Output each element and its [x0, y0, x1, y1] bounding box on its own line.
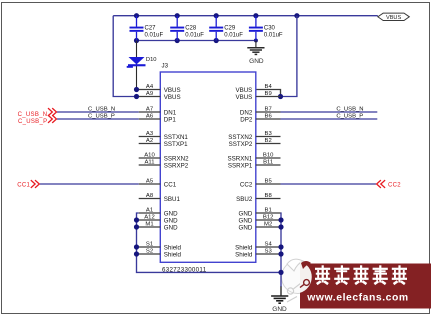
svg-text:D10: D10 [146, 57, 157, 63]
node S2 junction [134, 251, 139, 256]
svg-text:GND: GND [164, 217, 178, 224]
pin A2 SSTXP1 [139, 138, 188, 148]
wire right GND group (B1/B12/M2/S4/S3) [280, 213, 283, 287]
svg-text:SBU2: SBU2 [236, 196, 253, 203]
svg-text:C29: C29 [224, 26, 236, 32]
svg-text:GND: GND [239, 217, 253, 224]
decorative watermark hanzi [315, 265, 407, 285]
ground GND (shield) [271, 287, 288, 314]
pin A6 DP1 [139, 113, 177, 123]
svg-text:B1: B1 [265, 207, 272, 213]
pin A3 SSTXN1 [139, 131, 189, 141]
svg-text:0.01uF: 0.01uF [185, 33, 204, 39]
svg-text:A10: A10 [144, 152, 155, 158]
pin B1 GND [239, 207, 281, 217]
svg-text:B11: B11 [263, 159, 273, 165]
svg-text:GND: GND [239, 210, 253, 217]
svg-text:VBUS: VBUS [164, 87, 181, 94]
svg-text:C27: C27 [145, 26, 157, 32]
svg-text:www.elecfans.com: www.elecfans.com [306, 293, 408, 304]
wire pin B5 to CC2 [281, 183, 377, 185]
node S1 junction [134, 244, 139, 249]
svg-text:A3: A3 [146, 131, 154, 137]
ground GND (capacitor rail) [247, 41, 264, 66]
diode D10 (TVS) [127, 41, 157, 90]
pin A7 DN1 [139, 106, 177, 116]
wire left GND group (A1/A12/M1/S1/S2) [137, 213, 282, 272]
svg-text:SSRXP1: SSRXP1 [228, 162, 253, 169]
pin B2 SSTXP2 [229, 138, 281, 148]
svg-text:SSRXN1: SSRXN1 [228, 155, 253, 162]
pin A5 CC1 [139, 178, 177, 188]
pin B4 VBUS [235, 84, 272, 94]
pin S4 Shield [235, 241, 280, 251]
wire pin B6 to C_USB_P [281, 118, 378, 120]
svg-text:SSTXN1: SSTXN1 [164, 134, 189, 141]
svg-text:SSTXP2: SSTXP2 [229, 141, 253, 148]
pin M2 GND [239, 221, 281, 231]
svg-text:SSTXP1: SSTXP1 [164, 141, 188, 148]
svg-text:A7: A7 [146, 106, 153, 112]
svg-text:C30: C30 [264, 26, 276, 32]
svg-text:A5: A5 [146, 178, 154, 184]
svg-text:B8: B8 [265, 193, 273, 199]
svg-text:B5: B5 [265, 178, 273, 184]
pin A10 SSRXN2 [139, 152, 189, 162]
capacitor C29 0.01uF [209, 16, 243, 41]
svg-text:0.01uF: 0.01uF [145, 33, 164, 39]
pin A12 GND [139, 214, 178, 224]
svg-text:C_USB_N: C_USB_N [336, 107, 363, 113]
pin A1 GND [139, 207, 178, 217]
junction dots on VBUS rail [134, 13, 139, 18]
svg-text:A12: A12 [144, 214, 154, 220]
svg-text:DN1: DN1 [164, 109, 177, 116]
svg-text:CC2: CC2 [240, 181, 253, 188]
pin B9 VBUS [235, 91, 280, 101]
pin B7 DN2 [240, 106, 281, 116]
pin M1 GND [139, 221, 178, 231]
svg-text:B2: B2 [265, 138, 272, 144]
pin A8 SBU1 [139, 193, 181, 203]
svg-text:A8: A8 [146, 193, 154, 199]
pin B6 DP2 [240, 113, 280, 123]
svg-text:VBUS: VBUS [164, 94, 181, 101]
pin S2 Shield [139, 248, 182, 258]
svg-text:SSRXN2: SSRXN2 [164, 155, 189, 162]
svg-text:VBUS: VBUS [386, 15, 402, 21]
connector J3 body [160, 72, 256, 262]
svg-text:A9: A9 [146, 91, 153, 97]
svg-text:A4: A4 [146, 84, 154, 90]
wire C_USB_P to pin A6 [57, 118, 139, 120]
pin S1 Shield [139, 241, 182, 251]
svg-text:Shield: Shield [235, 251, 253, 258]
svg-text:A2: A2 [146, 138, 153, 144]
wire B4 to B9 join [256, 90, 281, 97]
svg-text:B3: B3 [265, 131, 273, 137]
svg-text:M2: M2 [264, 221, 272, 227]
svg-text:S3: S3 [265, 248, 273, 254]
svg-text:A6: A6 [146, 113, 154, 119]
svg-text:B4: B4 [265, 84, 273, 90]
capacitor C27 0.01uF [130, 16, 164, 41]
svg-text:0.01uF: 0.01uF [224, 33, 243, 39]
svg-text:A11: A11 [144, 159, 154, 165]
port CC2 (right edge) [377, 180, 386, 188]
pin B5 CC2 [240, 178, 281, 188]
pin B10 SSRXN1 [228, 152, 281, 162]
wire CC1 to pin A5 [40, 183, 139, 185]
wire pin B7 to C_USB_N [281, 111, 378, 113]
svg-text:S1: S1 [146, 241, 153, 247]
node shield/GND junction [278, 270, 283, 275]
pin S3 Shield [235, 248, 280, 258]
svg-text:SSTXN2: SSTXN2 [228, 134, 253, 141]
svg-text:SSRXP2: SSRXP2 [164, 162, 189, 169]
pin A11 SSRXP2 [139, 159, 189, 169]
svg-text:GND: GND [249, 58, 264, 65]
svg-text:C_USB_N: C_USB_N [18, 112, 48, 118]
svg-text:CC2: CC2 [388, 182, 401, 188]
svg-text:CC1: CC1 [164, 181, 177, 188]
pin B8 SBU2 [236, 193, 280, 203]
svg-text:GND: GND [164, 224, 178, 231]
svg-text:DP1: DP1 [164, 116, 177, 123]
power flag VBUS [378, 13, 410, 21]
svg-text:B10: B10 [263, 152, 274, 158]
svg-text:CC1: CC1 [17, 182, 30, 188]
node S3 junction [278, 251, 283, 256]
wire VBUS riser to B9 [281, 16, 297, 97]
node M2 junction [278, 224, 283, 229]
svg-text:C_USB_P: C_USB_P [18, 119, 47, 125]
svg-text:Shield: Shield [164, 251, 182, 258]
svg-text:GND: GND [164, 210, 178, 217]
node B12 junction [278, 217, 283, 222]
node A12 junction [134, 217, 139, 222]
svg-text:C_USB_N: C_USB_N [88, 107, 115, 113]
svg-text:VBUS: VBUS [235, 87, 252, 94]
wire C_USB_N to pin A7 [57, 111, 139, 113]
svg-text:GND: GND [272, 306, 287, 313]
node A9 junction [134, 94, 139, 99]
svg-text:Shield: Shield [164, 244, 182, 251]
svg-text:0.01uF: 0.01uF [264, 33, 283, 39]
pin A9 VBUS [139, 91, 181, 101]
wire capacitor GND rail [137, 40, 256, 42]
node A4 junction [137, 89, 139, 91]
pin B11 SSRXP1 [228, 159, 281, 169]
svg-text:B6: B6 [265, 113, 273, 119]
node M1 junction [134, 224, 139, 229]
capacitor C30 0.01uF [249, 16, 283, 41]
svg-text:C_USB_P: C_USB_P [88, 114, 115, 120]
svg-text:B7: B7 [265, 106, 272, 112]
svg-text:C_USB_P: C_USB_P [336, 114, 363, 120]
svg-text:C28: C28 [185, 26, 197, 32]
decorative watermark elecfans box [300, 261, 431, 309]
decorative watermark logo circle [282, 259, 315, 302]
wire left VBUS drop to pin A9 [113, 16, 136, 97]
svg-text:M1: M1 [145, 221, 153, 227]
svg-text:J3: J3 [162, 63, 169, 70]
pin B12 GND [239, 214, 281, 224]
svg-text:VBUS: VBUS [235, 94, 252, 101]
svg-text:DN2: DN2 [240, 109, 253, 116]
pin A4 VBUS [139, 84, 181, 94]
node B9 junction [278, 94, 283, 99]
pin B3 SSTXN2 [228, 131, 280, 141]
svg-text:B12: B12 [263, 214, 273, 220]
svg-text:S4: S4 [265, 241, 273, 247]
svg-text:Shield: Shield [235, 244, 253, 251]
svg-text:DP2: DP2 [240, 116, 253, 123]
capacitor C28 0.01uF [170, 16, 204, 41]
svg-text:A1: A1 [146, 207, 153, 213]
wire VBUS top rail [113, 15, 378, 17]
node S4 junction [278, 244, 283, 249]
junction dots on GND rail [134, 38, 139, 43]
svg-text:S2: S2 [146, 248, 153, 254]
svg-text:GND: GND [239, 224, 253, 231]
svg-text:SBU1: SBU1 [164, 196, 181, 203]
svg-text:B9: B9 [265, 91, 272, 97]
